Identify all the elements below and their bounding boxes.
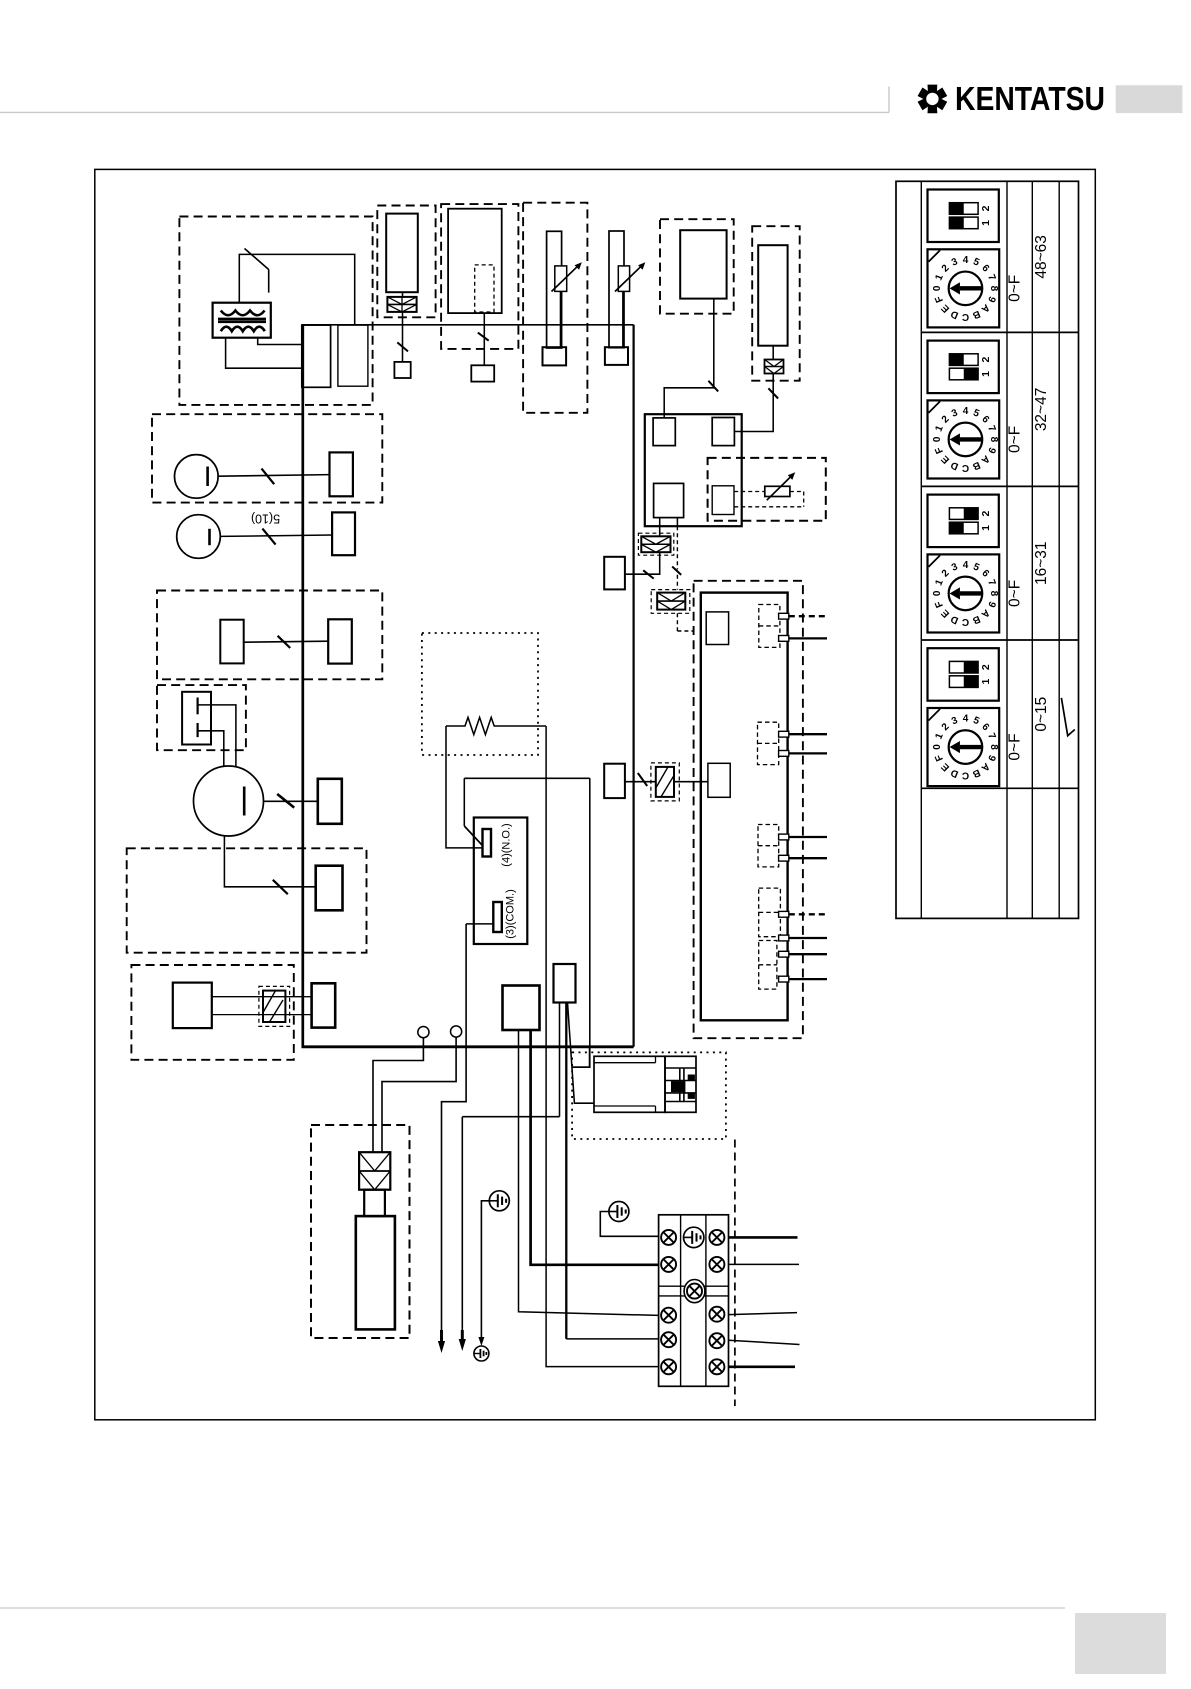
dashed sensor wires bbox=[734, 491, 765, 493]
component rect row3 bbox=[220, 620, 243, 664]
table row 2 rotary switch bbox=[928, 400, 1000, 478]
display pin line 6 bbox=[779, 855, 789, 861]
screw R5 bbox=[709, 1359, 724, 1374]
screw L5 bbox=[661, 1359, 676, 1374]
tick compressor bottom wire bbox=[273, 880, 288, 894]
inner dashed rect box2 bbox=[475, 265, 494, 312]
tick CN1 wire bbox=[643, 570, 654, 578]
tick row3 wire bbox=[278, 636, 291, 648]
footer gray block bbox=[1075, 1613, 1166, 1674]
table row 1 DIP switch bbox=[928, 190, 999, 243]
wire transformer secondary 1 bbox=[258, 338, 302, 345]
TH2 wire thick bbox=[622, 291, 624, 347]
wire box1 to PCB bbox=[402, 292, 404, 298]
contact bar (3)(COM.) bbox=[493, 902, 502, 932]
display pin cluster 5 bbox=[759, 941, 777, 990]
pcb circle c1 bbox=[418, 1027, 429, 1038]
header gray block bbox=[1116, 85, 1183, 113]
wire transformer secondary 2 bbox=[226, 338, 302, 369]
capacitor dashed box bbox=[157, 685, 246, 750]
wire ground right to terminal bbox=[600, 1212, 658, 1237]
box 3 tall dashed (thermistor TH1) bbox=[523, 203, 587, 413]
display pin line 7 bbox=[779, 911, 789, 917]
wire solenoid down bbox=[772, 346, 774, 360]
svg-text:C: C bbox=[962, 462, 969, 473]
screw L1 bbox=[661, 1230, 676, 1245]
resistor dotted box bbox=[422, 633, 538, 755]
display pin line 2 bbox=[779, 636, 789, 642]
dashed line right of terminal bbox=[734, 1140, 736, 1407]
svg-text:8: 8 bbox=[988, 437, 999, 443]
valve rect BL bbox=[654, 483, 684, 517]
long horizontal 1116 bbox=[462, 1116, 559, 1118]
PCB outline bottom edge bbox=[302, 1045, 634, 1048]
wire box5 to valve bbox=[664, 299, 714, 418]
compressor dashed box bbox=[127, 848, 367, 952]
display pin line 8 bbox=[779, 935, 789, 941]
svg-text:48~63: 48~63 bbox=[1033, 235, 1050, 279]
svg-text:0: 0 bbox=[932, 744, 943, 750]
relay box bbox=[474, 818, 528, 945]
wire cap1 to compressor bbox=[198, 705, 236, 767]
table row 1 rotary switch bbox=[928, 249, 1000, 327]
switch blade S1 bbox=[245, 249, 269, 270]
wire resistor left down bbox=[446, 726, 483, 848]
valve rect TL bbox=[653, 418, 675, 446]
field arrow 1 bbox=[440, 1330, 443, 1344]
display pin line 9 bbox=[779, 951, 789, 957]
tall dashed box (solenoid) bbox=[752, 226, 800, 381]
TH1 arrow bbox=[552, 265, 579, 291]
capacitor bar 2 bbox=[197, 723, 199, 737]
PCB rect lower (display feed2) bbox=[604, 764, 625, 798]
svg-text:4: 4 bbox=[963, 406, 969, 417]
display pin line 1 bbox=[779, 613, 789, 619]
wire blade top horizontal bbox=[464, 777, 590, 779]
component square bottom-left bbox=[173, 983, 212, 1029]
relay blade bbox=[464, 826, 482, 845]
wire cap2 to compressor bbox=[198, 731, 224, 768]
PCB outline right edge bbox=[632, 325, 634, 1047]
terminal center screw bbox=[684, 1280, 705, 1303]
dotted box connector bbox=[572, 1052, 726, 1139]
wires square to connector bbox=[212, 996, 312, 998]
tick compressor wire bbox=[277, 794, 294, 808]
connector row3 bbox=[328, 619, 352, 663]
wire B2 thick to terminal row4 bbox=[565, 1003, 567, 1339]
connector compressor 2 bbox=[316, 866, 343, 911]
svg-text:1: 1 bbox=[980, 525, 992, 531]
table pointer mark bbox=[1061, 698, 1074, 736]
tick box2 wire bbox=[478, 333, 489, 341]
svg-text:8: 8 bbox=[988, 744, 999, 750]
svg-text:4: 4 bbox=[963, 560, 969, 571]
bottom-left dashed box bbox=[131, 965, 293, 1060]
wire FM2 to connector bbox=[220, 535, 332, 536]
top box 5 dashed bbox=[660, 219, 734, 314]
connector X-box box1 bbox=[387, 297, 416, 312]
wire A2 thick to terminal row2 bbox=[531, 1030, 659, 1265]
terminal right wires bbox=[729, 1236, 798, 1239]
svg-text:1: 1 bbox=[980, 371, 992, 377]
svg-text:C: C bbox=[962, 311, 969, 322]
footer rule bbox=[0, 1607, 1065, 1609]
svg-text:8: 8 bbox=[988, 286, 999, 292]
table outline bbox=[896, 181, 1079, 918]
terminal block TB1 cell1 bbox=[302, 325, 331, 387]
TH2 adjustable box bbox=[618, 266, 629, 292]
connector square on bus box1 bbox=[394, 362, 410, 378]
wire right vertical to connector bbox=[572, 778, 590, 1067]
tick FM2 wire bbox=[262, 529, 275, 545]
display pin line 5 bbox=[779, 834, 789, 840]
transformer T1 bbox=[213, 303, 271, 338]
display pin line 10 bbox=[779, 976, 789, 982]
solenoid connector bowtie bbox=[765, 360, 784, 374]
fan motor FM1 bbox=[175, 455, 219, 499]
relay blade wire bbox=[463, 778, 465, 826]
display pin cluster 1 bbox=[759, 605, 780, 648]
table row 4 DIP switch bbox=[928, 648, 999, 701]
screw L4 bbox=[661, 1332, 676, 1347]
solenoid coil rect bbox=[758, 245, 787, 346]
tick CN3 wire bbox=[638, 773, 647, 786]
field arrow 2 bbox=[461, 1330, 464, 1342]
connector housing bbox=[594, 1056, 665, 1112]
ground symbol left bbox=[489, 1191, 509, 1211]
connector FM2 bbox=[332, 512, 355, 555]
top box 1 dashed (CH) bbox=[377, 206, 435, 318]
fan motor dashed box bbox=[152, 414, 382, 502]
display dashed box bbox=[694, 581, 803, 1038]
wire NO net to arrow2 bbox=[461, 1117, 463, 1330]
dashed box row3 bbox=[157, 591, 382, 680]
bowtie connector CN1 bbox=[641, 536, 670, 552]
wire B1 down-left bbox=[559, 1003, 561, 1117]
tick box1 wire bbox=[397, 342, 408, 351]
display pin cluster 2 bbox=[758, 722, 779, 764]
svg-text:(3)(COM.): (3)(COM.) bbox=[505, 889, 517, 939]
remote dashed box bbox=[311, 1125, 410, 1338]
wire row3 bbox=[244, 641, 329, 642]
display pin cluster 3 bbox=[758, 825, 779, 867]
wire transformer primary to switch bbox=[239, 254, 354, 325]
contact bar (4)(N.O.) bbox=[483, 829, 492, 857]
var resistor arrow bbox=[767, 476, 792, 501]
pcb circle c2 bbox=[451, 1026, 462, 1037]
wire CN3 to display bbox=[674, 781, 708, 783]
wire rect to CN3 bbox=[625, 781, 656, 783]
connector rect box2 bbox=[471, 365, 494, 381]
wire COM down to arrow1 bbox=[442, 924, 467, 1330]
PCB rect B bbox=[554, 964, 576, 1003]
valve rect TR bbox=[712, 418, 734, 446]
PCB rect A bbox=[503, 986, 540, 1031]
screw R1 bbox=[709, 1230, 724, 1245]
table row 3 DIP switch bbox=[928, 495, 999, 547]
transformer dashed box bbox=[179, 217, 372, 405]
svg-text:8: 8 bbox=[988, 591, 999, 597]
svg-text:2: 2 bbox=[980, 205, 992, 211]
screw L2 bbox=[661, 1257, 676, 1272]
PCB rect upper (display feed) bbox=[604, 557, 625, 590]
tick FM1 wire bbox=[262, 469, 275, 485]
svg-text:1: 1 bbox=[980, 220, 992, 226]
kentatsu gear logo bbox=[918, 85, 948, 114]
wire c2 to remote bbox=[382, 1037, 456, 1152]
connector FM1 bbox=[330, 452, 353, 496]
svg-text:0~15: 0~15 bbox=[1033, 697, 1050, 732]
wire c1 to remote bbox=[373, 1038, 423, 1153]
capacitor bar 1 bbox=[197, 698, 199, 715]
svg-text:4: 4 bbox=[963, 714, 969, 725]
svg-text:2: 2 bbox=[980, 357, 992, 363]
svg-text:2: 2 bbox=[980, 511, 992, 517]
svg-text:KENTATSU: KENTATSU bbox=[955, 80, 1105, 117]
remote body bbox=[356, 1216, 395, 1329]
screw R3 bbox=[709, 1307, 724, 1322]
svg-text:0~F: 0~F bbox=[1007, 733, 1024, 760]
resistor R1 zigzag bbox=[446, 717, 546, 734]
valve box outline bbox=[645, 414, 742, 526]
TH1 adjustable box bbox=[555, 266, 567, 292]
thermistor TH1 body bbox=[547, 231, 562, 348]
TH2 connector bbox=[605, 347, 628, 365]
wire compressor right bbox=[264, 800, 318, 802]
hatch connector CN4 bbox=[263, 991, 285, 1022]
capacitor housing bbox=[182, 692, 211, 745]
connector pin block bbox=[665, 1056, 696, 1112]
svg-text:32~47: 32~47 bbox=[1033, 388, 1050, 432]
svg-text:16~31: 16~31 bbox=[1033, 541, 1050, 585]
compressor circle bbox=[194, 766, 264, 836]
fan motor FM2 bbox=[177, 515, 221, 559]
wire resistor right down to terminal row5 bbox=[546, 726, 659, 1367]
remote neck bbox=[364, 1190, 385, 1216]
table row 4 rotary switch bbox=[928, 708, 1000, 786]
svg-text:(4)(N.O.): (4)(N.O.) bbox=[501, 823, 513, 866]
connector compressor bbox=[318, 779, 342, 824]
connector PCB bottom-left bbox=[312, 983, 336, 1027]
wire compressor bottom bbox=[224, 836, 315, 887]
wire CN1 to PCB rect bbox=[625, 552, 660, 574]
dashed wire CN2 to display box bbox=[676, 613, 678, 631]
screw L3 bbox=[661, 1308, 676, 1323]
svg-text:0~F: 0~F bbox=[1007, 275, 1024, 302]
PCB outline left edge bbox=[301, 325, 304, 1047]
diagram border bbox=[95, 169, 1096, 1419]
TH1 wire thick bbox=[560, 291, 562, 347]
screw R4 bbox=[709, 1333, 724, 1348]
wire A1 to terminal row3 bbox=[519, 1030, 659, 1315]
svg-text:0: 0 bbox=[932, 285, 943, 291]
svg-text:0: 0 bbox=[932, 590, 943, 596]
display inner rect top bbox=[706, 612, 728, 645]
svg-text:C: C bbox=[962, 616, 969, 627]
svg-text:5(10): 5(10) bbox=[251, 512, 280, 526]
wire ground left down bbox=[481, 1201, 489, 1341]
wire FM1 to connector bbox=[218, 475, 329, 477]
tick box5 wire bbox=[708, 381, 718, 392]
TH2 arrow bbox=[615, 265, 642, 291]
table row 2 DIP switch bbox=[928, 341, 999, 394]
terminal ground symbol bbox=[684, 1227, 704, 1247]
bowtie connector CN2 bbox=[657, 593, 685, 610]
table row 3 rotary switch bbox=[928, 554, 1000, 632]
svg-text:0~F: 0~F bbox=[1007, 426, 1024, 453]
tick solenoid wire bbox=[768, 388, 778, 398]
svg-text:1: 1 bbox=[980, 679, 992, 685]
wire COM out bbox=[466, 923, 493, 925]
display inner rect mid bbox=[708, 763, 730, 797]
wire B3 diagonal to connector bbox=[568, 1003, 595, 1104]
component rect box5 bbox=[680, 230, 726, 298]
dashed wire valve to CN2 bbox=[676, 526, 678, 569]
component rect box2 bbox=[448, 209, 502, 313]
wire valve BL stub1 bbox=[659, 518, 661, 537]
svg-text:2: 2 bbox=[980, 664, 992, 670]
thermistor TH2 body bbox=[609, 231, 624, 348]
display pin line 3 bbox=[779, 731, 789, 737]
right-center dashed box (sensor) bbox=[708, 458, 826, 521]
terminal block TB1 cell2 bbox=[338, 325, 368, 386]
hatch connector CN3 bbox=[656, 767, 674, 797]
display solid body bbox=[701, 593, 788, 1021]
PCB outline top bus bbox=[302, 324, 634, 326]
variable resistor bbox=[765, 486, 790, 496]
TH1 connector bbox=[543, 347, 567, 365]
terminal block outline bbox=[659, 1215, 729, 1387]
svg-text:0~F: 0~F bbox=[1007, 580, 1024, 607]
remote connector cells bbox=[359, 1152, 390, 1190]
svg-text:4: 4 bbox=[963, 255, 969, 266]
small ground terminal bbox=[478, 1337, 484, 1346]
top box 2 dashed bbox=[441, 204, 518, 349]
display pin line 4 bbox=[779, 751, 789, 757]
component tall rect box1 bbox=[386, 214, 418, 293]
wire PCB to connector stub bbox=[572, 1047, 590, 1067]
wire valve BL stub2 bbox=[676, 518, 678, 527]
ground symbol right bbox=[609, 1202, 629, 1222]
svg-text:0: 0 bbox=[932, 436, 943, 442]
valve rect BR bbox=[712, 486, 734, 515]
header rule bbox=[0, 111, 889, 113]
screw R2 bbox=[709, 1257, 724, 1272]
svg-text:C: C bbox=[962, 770, 969, 781]
wire box2 down bbox=[483, 313, 485, 365]
display pin cluster 4 bbox=[759, 888, 781, 937]
